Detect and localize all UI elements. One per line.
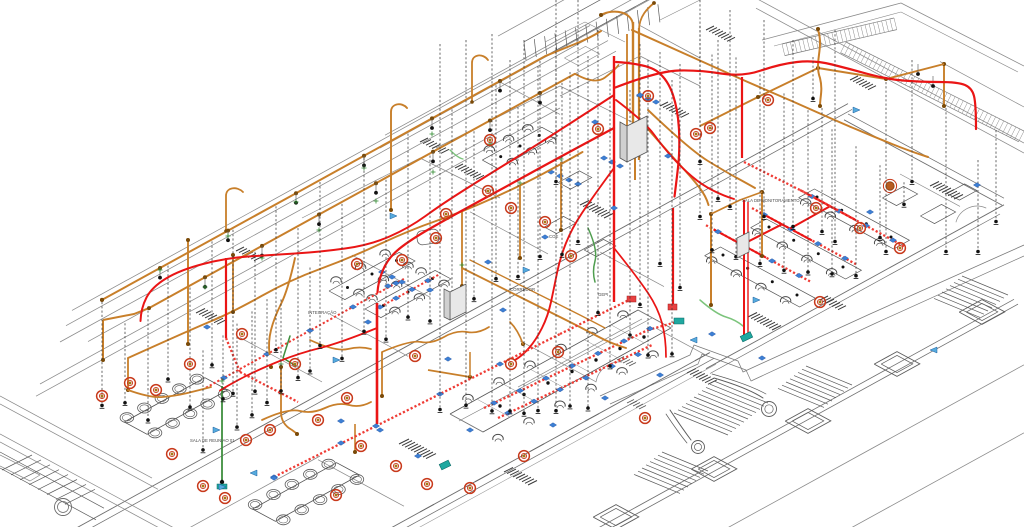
red trunk vertical left xyxy=(376,303,379,424)
conduit riser f1 xyxy=(100,298,104,302)
walkway edge bl 2 xyxy=(0,404,158,489)
conduit lamp stub xyxy=(362,156,366,168)
smoke detector 37 xyxy=(811,203,822,214)
drop facade 22 xyxy=(406,134,411,320)
wall - gepi west xyxy=(520,341,596,382)
conduit run1 to shaft xyxy=(545,31,601,56)
floor outlet 21 xyxy=(656,373,663,378)
wall - wing inner part xyxy=(900,174,960,206)
conduit shaft hook xyxy=(599,12,633,26)
drop center 12 xyxy=(490,34,495,414)
annex inner walls xyxy=(545,0,700,96)
smoke detector 26 xyxy=(506,203,517,214)
conduit shaft hook2 xyxy=(639,1,656,30)
smoke detector 39 xyxy=(895,243,906,254)
conduit lower run 3 xyxy=(310,340,371,350)
wall - gepi NE xyxy=(518,319,642,387)
drop facade 2 xyxy=(123,323,128,405)
floor outlet 20 xyxy=(601,396,608,401)
conduit lamp stub 2 xyxy=(488,121,492,133)
green riser long xyxy=(220,386,224,484)
annex wall 2 xyxy=(498,81,560,115)
wall - spine wall inner xyxy=(72,109,852,527)
wall - partition integracao xyxy=(352,255,430,297)
desk island wing 1 xyxy=(799,189,910,249)
floor outlet 15 xyxy=(541,235,548,240)
drop facade 23 xyxy=(428,156,433,324)
floor mat 7 xyxy=(748,313,781,331)
desk island integracao 2 xyxy=(365,268,451,318)
smoke detector 2 xyxy=(125,378,136,389)
floor outlet 1 xyxy=(203,325,210,330)
drop center 6 xyxy=(716,40,721,202)
red riser wing feed xyxy=(672,208,674,305)
red shaft riser xyxy=(613,56,615,302)
stair flight bottom-left xyxy=(0,452,104,520)
drop center 19 xyxy=(628,90,633,338)
conduit run2 to shaft xyxy=(575,65,619,81)
red cable big left swoop xyxy=(141,95,615,321)
terrace walkway edge a xyxy=(600,245,1024,396)
floor outlet 18 xyxy=(973,183,980,188)
drop wing 6 xyxy=(830,129,835,276)
roof v-pair right 1 xyxy=(748,0,1024,143)
desk island wing 3 xyxy=(705,247,816,307)
wing wall cabinet xyxy=(737,232,749,258)
conduit riser s1 xyxy=(231,253,235,314)
conduit lamp stub xyxy=(294,193,298,205)
green riser box xyxy=(217,484,227,489)
conduit wing riser 2 xyxy=(760,190,764,258)
wall - SE facade outer xyxy=(386,353,710,527)
terrace column 4 xyxy=(691,457,737,482)
conduit lamp stub xyxy=(226,231,230,243)
drop high 8 xyxy=(820,108,825,234)
label INTEGRACAO xyxy=(308,310,337,315)
electrical cabinet shaft xyxy=(620,116,647,162)
wall - NW facade line 4 xyxy=(88,51,616,341)
conduit integracao wave xyxy=(382,327,489,352)
conduit lamp stub xyxy=(430,118,434,129)
stair top-right left band xyxy=(782,18,897,56)
smoke detector 9 xyxy=(241,435,252,446)
floor outlet 10 xyxy=(708,332,715,337)
red riser mid-top xyxy=(741,77,743,158)
red dashed integracao A xyxy=(206,279,404,388)
wall - integracao walls xyxy=(302,158,500,218)
smoke detector 14 xyxy=(342,393,353,404)
conduit facade run 1 xyxy=(100,56,545,302)
column ring bottom-left xyxy=(55,499,72,516)
drop facade 4 xyxy=(166,266,171,382)
desk island integracao 1 xyxy=(329,250,415,300)
terrace stair small xyxy=(634,452,708,493)
floor outlet 22 xyxy=(414,454,421,459)
red dashed integracao B xyxy=(376,274,440,309)
floor outlet 11 xyxy=(758,356,765,361)
terrace column 5 xyxy=(593,505,639,527)
drop high 3 xyxy=(698,0,703,164)
flow arrow 9 xyxy=(930,347,937,353)
conduit sinuous run xyxy=(128,152,583,358)
smoke detector 28 xyxy=(566,251,577,262)
floor outlet 16 xyxy=(636,93,643,98)
conduit S riser xyxy=(816,27,822,108)
conduit riser f2b xyxy=(186,238,190,346)
floor outlet 12 xyxy=(364,320,371,325)
smoke detector 33 xyxy=(506,359,517,370)
drop high 12 xyxy=(944,108,949,254)
drop center 4 xyxy=(678,64,683,290)
red dashed gepi xyxy=(500,299,631,364)
smoke detector 11 xyxy=(290,359,301,370)
roof gable right inner xyxy=(774,12,1018,72)
floor outlet 23 xyxy=(466,428,473,433)
conduit stub room1 xyxy=(353,424,357,454)
conduit lower riser xyxy=(380,352,384,398)
floor outlet 4 xyxy=(376,428,383,433)
integracao diamonds xyxy=(220,278,431,380)
red dashed from riser xyxy=(226,338,298,402)
smoke detector 36 xyxy=(763,95,774,106)
terrace round column 2 xyxy=(692,441,705,454)
floor mat 2 xyxy=(455,164,484,179)
floor outlet 14 xyxy=(484,260,491,265)
conduit facade run 2 xyxy=(103,74,575,320)
coe side table xyxy=(558,171,591,189)
wall - wing SE inner xyxy=(710,214,1000,374)
drop wing 4 xyxy=(782,93,787,273)
drop facade 10 xyxy=(279,299,284,393)
roof line top 1 xyxy=(385,0,652,135)
desk block chairs xyxy=(463,311,658,442)
drop facade 3 xyxy=(146,311,151,423)
annex stair top-center xyxy=(524,0,672,68)
floor outlet 17 xyxy=(866,210,873,215)
floor outlet 7 xyxy=(591,120,598,125)
wall - wing NE a xyxy=(844,120,1002,205)
drop facade 20 xyxy=(362,158,367,334)
walkway edge bl 4 xyxy=(0,442,206,527)
label COE xyxy=(549,234,558,239)
wall - corridor gap v xyxy=(600,252,664,287)
smoke detector 15 xyxy=(356,441,367,452)
drop facade 12 xyxy=(221,335,226,401)
wall - spine wall outer xyxy=(66,104,848,527)
label GEPI xyxy=(598,292,608,297)
drop high 4 xyxy=(728,10,733,209)
drop high 7 xyxy=(811,57,816,101)
conduit hook riser C xyxy=(389,104,407,219)
smoke detector 16 xyxy=(391,461,402,472)
smoke detector 3 xyxy=(151,385,162,396)
conduit run topright xyxy=(632,30,928,157)
teal floor box xyxy=(740,332,753,342)
drop facade 15 xyxy=(253,252,258,394)
conduit lamp stub xyxy=(498,81,502,93)
drop facade 17 xyxy=(296,228,301,380)
wall - partition MR1/MR2 xyxy=(240,338,322,382)
conduit mid riser 3 xyxy=(559,162,563,232)
terrace column 1 xyxy=(959,300,1005,325)
red cable to left trunk xyxy=(378,128,615,293)
drop center 9 xyxy=(522,40,527,416)
roof gable right outer xyxy=(762,3,1024,66)
coe tables 2 xyxy=(544,216,616,256)
terrace column 3 xyxy=(785,409,831,434)
red dashed wing feeder xyxy=(744,162,854,219)
drop facade 9 xyxy=(265,299,270,405)
red dashed blue diamonds path xyxy=(270,362,503,480)
conduit lower run 2 xyxy=(262,402,371,420)
svg-text:SALA DE REUNIAO 01: SALA DE REUNIAO 01 xyxy=(190,438,235,443)
floor mat 13 xyxy=(850,76,876,90)
smoke detector 8 xyxy=(220,493,231,504)
floor outlet 3 xyxy=(337,419,344,424)
flow arrow 1 xyxy=(219,484,226,490)
red floor box corr xyxy=(627,296,677,310)
teal box block xyxy=(674,318,684,324)
desk block center xyxy=(450,310,671,432)
drop facade 28 xyxy=(538,61,543,259)
drop high 9 xyxy=(833,30,838,244)
drop high 5 xyxy=(762,20,767,219)
drop facade 6 xyxy=(201,350,206,452)
smoke detector 35 xyxy=(705,123,716,134)
smoke detector 32 xyxy=(485,135,496,146)
conduit wing swoop 2 xyxy=(648,110,755,188)
conduit corridor run b xyxy=(470,260,605,328)
drop facade 27 xyxy=(516,107,521,279)
drop high 6 xyxy=(791,40,796,229)
floor outlet 5 xyxy=(444,357,451,362)
floor mat 9 xyxy=(930,182,963,200)
conduit riser integ xyxy=(279,365,299,436)
drop facade 14 xyxy=(231,230,236,396)
wall - wing NW short xyxy=(656,328,706,355)
smoke detector 10 xyxy=(265,425,276,436)
smoke detector 40 xyxy=(815,297,826,308)
conduit shaft below xyxy=(634,158,636,180)
drop high 1 xyxy=(554,0,559,184)
label SALA MONITORAMENTO xyxy=(742,198,800,203)
smoke detector 21 xyxy=(553,347,564,358)
floor mat 8 xyxy=(820,296,846,310)
drop center 10 xyxy=(554,48,559,414)
floor mat 6 xyxy=(660,102,689,117)
terrace outer edge 2 xyxy=(846,433,1024,527)
drop wing 3 xyxy=(758,74,763,266)
conduit shaft riser 1 xyxy=(632,22,634,158)
drop center 15 xyxy=(508,60,513,414)
red cable coe loop xyxy=(515,168,614,360)
drop center 2 xyxy=(638,44,643,307)
desk island wing 2 xyxy=(751,219,862,279)
red dashed row B xyxy=(498,345,652,418)
walkway edge bl 3 xyxy=(0,434,200,527)
drop center 18 xyxy=(608,80,613,369)
smoke detector 38 xyxy=(855,223,866,234)
conduit wing riser 1 xyxy=(709,212,713,307)
wall - NW parapet line 3 xyxy=(60,41,608,342)
smoke detector 12 xyxy=(313,415,324,426)
floor outlet 13 xyxy=(426,288,433,293)
wall - rooms NW wall a xyxy=(40,101,555,384)
lounge table xyxy=(416,229,440,246)
terrace outer edge 1 xyxy=(728,365,1024,527)
red dashed row A xyxy=(484,321,680,408)
meeting room 1 table+chairs xyxy=(120,374,232,438)
conduit lamp stub 2 xyxy=(317,215,321,227)
conduit corridor run xyxy=(462,268,626,348)
smoke detector 25 xyxy=(483,186,494,197)
noc room desks xyxy=(882,179,977,223)
red wing pair xyxy=(744,200,748,338)
smoke detector 13 xyxy=(331,490,342,501)
smoke detector 34 xyxy=(352,259,363,270)
conduit mid risers xyxy=(460,212,464,288)
terrace stair big rail 1 xyxy=(712,374,766,398)
drop high 13 xyxy=(976,160,981,254)
drop center 17 xyxy=(568,72,573,409)
wall - coe room walls xyxy=(436,86,640,148)
smoke detector 18 xyxy=(422,479,433,490)
smoke detector 27 xyxy=(540,217,551,228)
red cable center splay xyxy=(614,248,666,357)
conduit hook riser A xyxy=(224,188,243,233)
wall - partition MR2 east xyxy=(330,314,408,356)
smoke detector 41 xyxy=(640,413,651,424)
drop center 13 xyxy=(464,40,469,408)
conduit riser f2 xyxy=(101,320,105,362)
drop facade 26 xyxy=(494,85,499,281)
conduit lamp stub xyxy=(158,268,162,280)
drop facade 18 xyxy=(318,182,323,348)
floor mat 11 xyxy=(504,468,537,486)
drop facade 24 xyxy=(450,109,455,300)
drop wing 8 xyxy=(878,165,883,240)
wall - SE facade glass xyxy=(400,364,716,527)
drop wing 7 xyxy=(854,146,859,278)
terrace column 2 xyxy=(874,352,920,377)
conduit lamp stub 2 xyxy=(374,183,378,195)
flow arrow 6 xyxy=(523,267,530,273)
walkway corner bl xyxy=(0,455,40,481)
facade pilasters xyxy=(420,353,709,512)
wall - bottom room edge xyxy=(190,456,320,527)
wall - wing NE b xyxy=(848,114,1004,198)
drop center 5 xyxy=(698,26,703,219)
drop wing 1 xyxy=(710,55,715,253)
floor outlet 19 xyxy=(549,423,556,428)
wall - gepi door arc xyxy=(596,362,622,382)
drop facade 1 xyxy=(100,302,105,408)
drop wing 9 xyxy=(902,182,907,207)
drop facade 5 xyxy=(188,288,193,410)
drop wing 2 xyxy=(734,57,739,259)
green cable 1 xyxy=(588,228,596,282)
drop high 2 xyxy=(576,0,581,244)
red cable top hump xyxy=(614,61,976,129)
teal floor box 2 xyxy=(439,460,451,470)
flow arrow 5 xyxy=(450,307,457,313)
red riser left xyxy=(225,258,227,338)
red jumper wing 2 xyxy=(742,224,782,244)
floor outlet 9 xyxy=(664,154,671,159)
meeting room 2 table+chairs xyxy=(248,459,363,525)
terrace stair right xyxy=(934,276,1008,317)
green kink integ xyxy=(283,336,296,366)
electrical cabinet left xyxy=(444,284,466,320)
conduit lamp stub 2 xyxy=(203,277,207,289)
floor outlet 2 xyxy=(270,476,277,481)
conduit wing swoop 1 xyxy=(640,120,709,205)
red dashed bl diag 1 xyxy=(274,426,376,477)
smoke detector 24 xyxy=(441,209,452,220)
conduit riser tr xyxy=(942,62,946,108)
row diamonds wing xyxy=(714,194,896,278)
svg-text:GEPI: GEPI xyxy=(598,292,608,297)
conduit run topright high xyxy=(700,64,944,126)
roof line top 2 xyxy=(380,0,660,148)
terrace mat 2 xyxy=(617,357,646,410)
floor mat 1 xyxy=(399,439,436,459)
smoke detector 4 xyxy=(185,359,196,370)
conduit wing crossbar xyxy=(711,192,762,214)
smoke detector 17 xyxy=(410,351,421,362)
smoke detector 23 xyxy=(397,255,408,266)
coe diamonds xyxy=(547,170,581,187)
red jumper wing 1 xyxy=(790,206,830,228)
floor mat 10 xyxy=(236,247,262,261)
terrace mat xyxy=(687,369,717,385)
smoke detector 5 xyxy=(237,329,248,340)
wall - partition coe xyxy=(470,212,548,254)
red dashed wing C xyxy=(706,225,810,281)
conduit lamp stub 2 xyxy=(538,93,542,105)
drop center 7 xyxy=(646,60,651,358)
red swoop to wing xyxy=(616,62,679,197)
wall - rooms NW wall b xyxy=(36,108,560,396)
drop center 8 xyxy=(670,80,675,357)
terrace stair big xyxy=(674,381,768,435)
lamp dots topright xyxy=(916,64,935,88)
wall - SE facade inner xyxy=(392,358,714,527)
floor mat 3 xyxy=(196,309,226,325)
green node glyphs xyxy=(158,132,564,384)
wall - wing SE outer xyxy=(706,205,1004,369)
wall - bottom room v xyxy=(318,460,404,507)
conduit lower run 1 xyxy=(128,387,211,397)
smoke detector 6 xyxy=(167,449,178,460)
conduit lamp stub 2 xyxy=(431,152,435,164)
wall - wing door arc xyxy=(956,206,986,222)
green cable 3 xyxy=(450,150,463,159)
conduit lamp stub 2 xyxy=(260,246,264,258)
shaft diamonds xyxy=(600,94,659,169)
row diamonds center xyxy=(490,326,653,415)
red dashed bl diag 2 xyxy=(376,364,500,426)
smoke detector 22 xyxy=(431,233,442,244)
terrace colonnade rail a xyxy=(588,299,1014,527)
floor mat 12 xyxy=(706,26,735,41)
conduit hook riser B xyxy=(470,55,488,103)
drop center 11 xyxy=(586,56,591,411)
flow arrow 10 xyxy=(853,107,860,113)
drop high 10 xyxy=(884,82,889,254)
drop facade 19 xyxy=(340,204,345,361)
smoke detector 1 xyxy=(97,391,108,402)
